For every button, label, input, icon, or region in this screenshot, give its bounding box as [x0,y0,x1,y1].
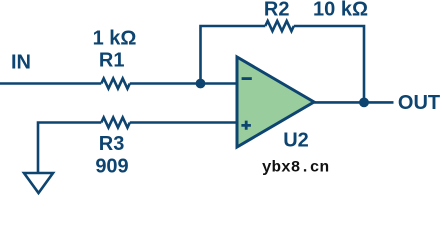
ground symbol [24,173,53,193]
svg-text:1 kΩ: 1 kΩ [93,28,137,50]
svg-text:R3: R3 [99,133,125,155]
svg-text:OUT: OUT [398,92,440,114]
op-amp plus pin mark [241,121,251,130]
wire op-amp output to OUT [314,101,394,104]
junction node at R1/feedback [196,79,206,89]
wire R2 to right vertical down to output [294,26,364,102]
junction node at output/feedback [359,98,369,108]
svg-text:R1: R1 [99,50,125,72]
resistor R1 zigzag [101,78,130,88]
wire R3 to op-amp plus input [130,121,237,124]
wire feedback left vertical and top run to R2 [201,26,266,84]
wire ground corner to op-amp plus input [38,123,101,174]
svg-text:ybx8.cn: ybx8.cn [262,158,329,176]
op-amp minus pin mark [242,77,252,80]
resistor R2 zigzag [265,21,294,31]
svg-text:10 kΩ: 10 kΩ [313,0,368,21]
svg-text:U2: U2 [283,130,309,152]
resistor R3 zigzag [101,117,130,127]
wire R1 to op-amp minus input [130,82,237,85]
svg-text:R2: R2 [264,0,290,21]
wire IN to R1 (inverting input net) [0,82,101,85]
op-amp U2 triangle [237,57,314,147]
svg-text:IN: IN [11,52,31,74]
svg-text:909: 909 [95,156,128,178]
